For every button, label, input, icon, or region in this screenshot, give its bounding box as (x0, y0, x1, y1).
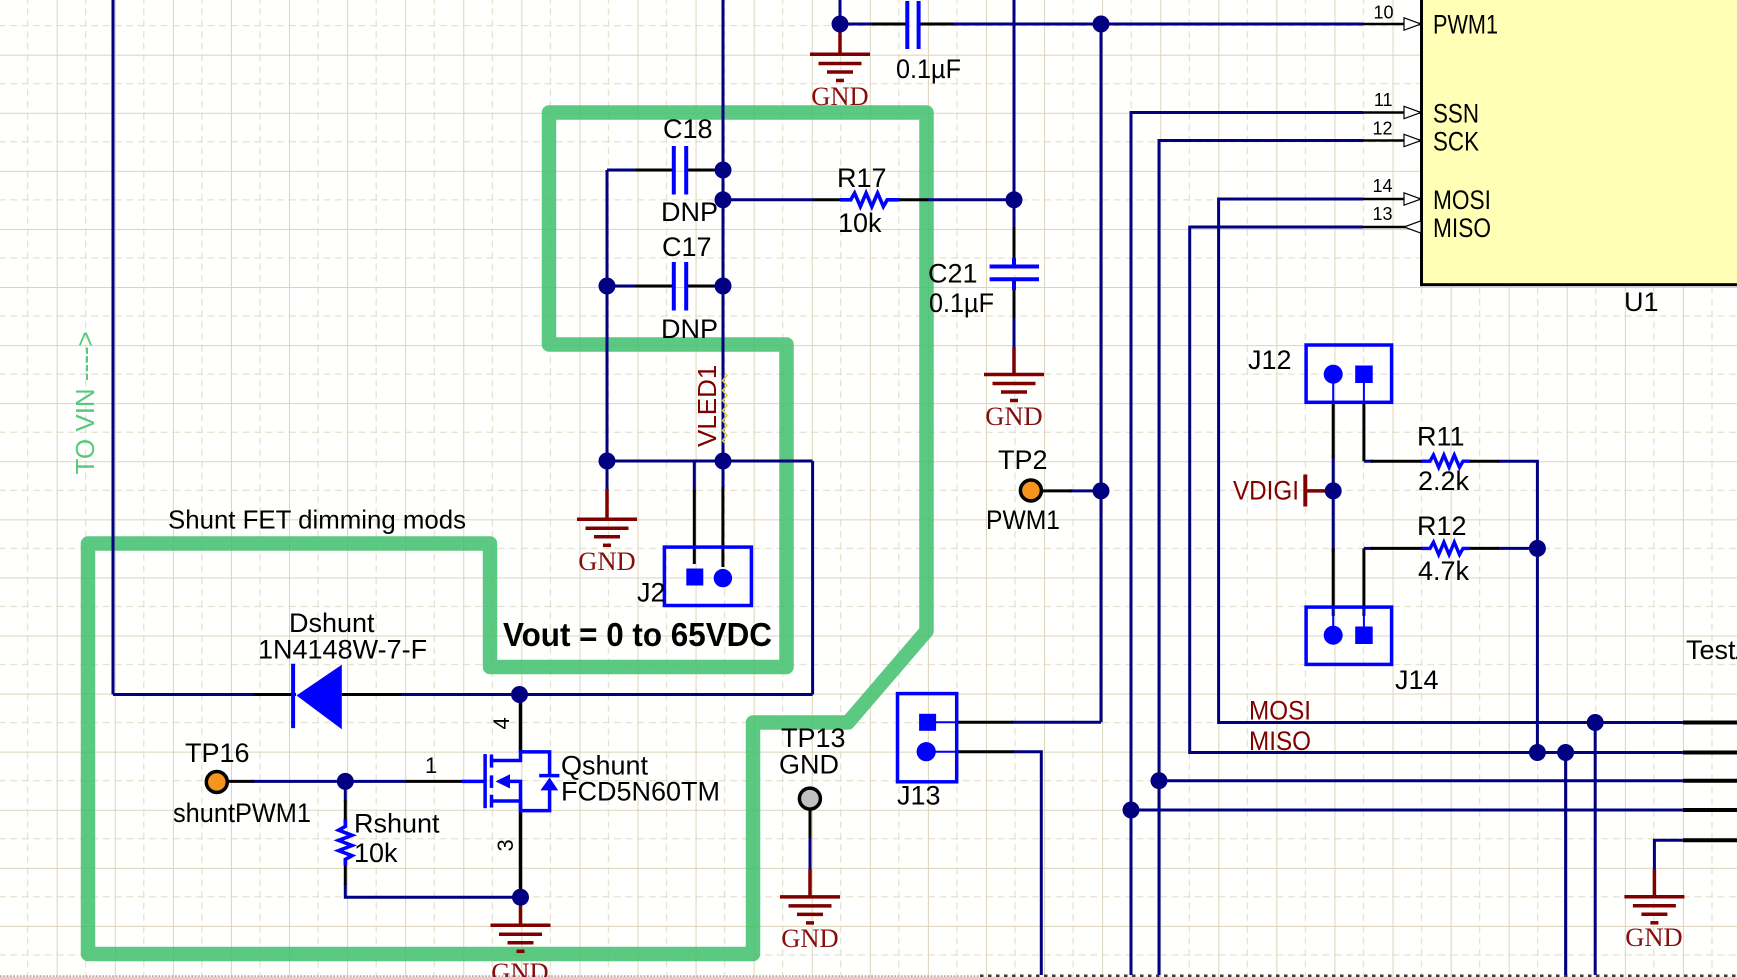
capacitor C20 0.1uF top (872, 1, 961, 84)
svg-text:12: 12 (1372, 119, 1392, 139)
resistor R17 (813, 163, 928, 238)
svg-text:Rshunt: Rshunt (354, 809, 440, 839)
svg-text:4: 4 (489, 717, 514, 729)
wire J2 square pin stub (693, 461, 696, 492)
svg-text:11: 11 (1374, 90, 1393, 110)
svg-text:R12: R12 (1417, 511, 1467, 541)
svg-text:J13: J13 (897, 781, 941, 811)
svg-text:GND: GND (781, 923, 838, 953)
testpoint TP16 shuntPWM1 (173, 738, 311, 828)
svg-text:J14: J14 (1395, 665, 1439, 695)
svg-text:C21: C21 (928, 259, 978, 289)
resistor R12 4.7k (1371, 511, 1499, 586)
ground GND (TP13) (780, 869, 840, 953)
wire C17-C18 left leg (606, 170, 609, 489)
wire VIN vertical left (112, 0, 115, 695)
svg-text:MISO: MISO (1249, 726, 1311, 756)
wire C20 top row (840, 23, 1363, 26)
svg-text:3: 3 (493, 839, 518, 851)
svg-text:10: 10 (1373, 3, 1393, 23)
svg-text:4.7k: 4.7k (1418, 556, 1470, 586)
pin 10 PWM1 (1363, 3, 1498, 40)
svg-text:1: 1 (425, 753, 437, 778)
svg-text:TP2: TP2 (998, 445, 1048, 475)
port TO VIN (70, 331, 100, 474)
capacitor C18 (636, 114, 718, 227)
svg-text:0.1µF: 0.1µF (896, 54, 961, 84)
svg-text:PWM1: PWM1 (986, 505, 1060, 535)
connector J12 (1248, 345, 1392, 461)
wire VLED1 vertical (722, 0, 725, 487)
ground GND (far right) (1624, 869, 1684, 952)
wire SSN net (1131, 113, 1363, 976)
svg-text:GND: GND (985, 401, 1042, 431)
svg-text:GND: GND (811, 81, 868, 111)
svg-text:MOSI: MOSI (1433, 185, 1491, 215)
wire PWM1 net vertical (1100, 24, 1103, 722)
svg-text:TestA: TestA (1686, 635, 1737, 665)
wire SCK net (1159, 141, 1363, 976)
connector J2 (637, 487, 751, 608)
testpoint TP13 GND (779, 723, 846, 869)
ground GND (Qshunt source) (491, 897, 551, 977)
svg-text:shuntPWM1: shuntPWM1 (173, 798, 311, 828)
pin 12 SCK (1363, 119, 1479, 157)
svg-text:10k: 10k (354, 838, 398, 868)
wire VLED1 right riser (811, 461, 814, 695)
wire R12 right stub (1498, 547, 1537, 550)
svg-text:Vout = 0 to 65VDC: Vout = 0 to 65VDC (503, 616, 772, 653)
sheet bottom edge left (0, 975, 979, 977)
resistor R11 2.2k (1371, 422, 1499, 497)
net label VLED1 (692, 365, 727, 447)
resistor Rshunt 10k (339, 800, 440, 885)
wire MISO drop (1564, 753, 1567, 976)
svg-text:C17: C17 (662, 232, 712, 262)
svg-text:0.1µF: 0.1µF (929, 288, 994, 318)
svg-text:2.2k: 2.2k (1418, 466, 1470, 496)
wire C18 row (607, 169, 723, 172)
svg-text:MOSI: MOSI (1249, 696, 1311, 726)
svg-text:DNP: DNP (661, 314, 718, 344)
right edge connector pin stubs (1683, 723, 1737, 841)
svg-text:10k: 10k (838, 208, 882, 238)
wire source gnd stub (519, 888, 522, 897)
wire MISO net (1190, 227, 1683, 753)
pin 13 MISO (1363, 204, 1491, 243)
svg-text:J2: J2 (637, 578, 666, 608)
transistor Qshunt FCD5N60TM (406, 698, 720, 890)
svg-text:C18: C18 (663, 114, 713, 144)
ground GND (J2 area) (577, 489, 637, 576)
svg-text:PWM1: PWM1 (1433, 10, 1498, 40)
wire TP2 to PWM1 (1070, 489, 1101, 492)
svg-text:Shunt FET dimming mods: Shunt FET dimming mods (168, 505, 466, 535)
connector J14 (1306, 548, 1438, 695)
svg-text:DNP: DNP (661, 197, 718, 227)
svg-text:TO VIN ---->: TO VIN ----> (70, 331, 100, 474)
wire right GND stub (1654, 840, 1683, 869)
svg-text:SCK: SCK (1433, 127, 1479, 157)
ground GND (C21) (984, 347, 1044, 431)
wire J12 round pin net / VDIGI (1332, 455, 1335, 552)
wire Rshunt top stub (344, 781, 347, 801)
svg-text:GND: GND (491, 957, 548, 977)
pin 14 MOSI (1363, 176, 1491, 215)
wire J13 pin2 run (1012, 752, 1041, 975)
svg-text:MISO: MISO (1433, 213, 1491, 243)
wire SSN branch row (1131, 809, 1683, 812)
power port VDIGI (1233, 475, 1327, 507)
wire C20 gnd stub (839, 0, 842, 30)
svg-text:SSN: SSN (1433, 99, 1479, 129)
wire R11 left stub (1364, 460, 1373, 463)
svg-text:Dshunt: Dshunt (289, 608, 375, 638)
svg-text:R11: R11 (1417, 422, 1465, 452)
svg-text:FCD5N60TM: FCD5N60TM (561, 777, 720, 807)
svg-text:GND: GND (578, 546, 635, 576)
wire Dshunt row (113, 693, 813, 696)
wire MOSI net (1219, 199, 1683, 723)
wire TP16 to gate (252, 780, 406, 783)
testpoint TP2 PWM1 (986, 445, 1072, 535)
wire R12 left stub (1364, 547, 1373, 550)
wire C17 row (607, 285, 723, 288)
wire MOSI drop (1594, 723, 1597, 976)
svg-text:13: 13 (1372, 204, 1392, 224)
connector J13 (897, 694, 1013, 811)
wire R11-R12 right leg (1498, 461, 1537, 752)
svg-text:U1: U1 (1624, 287, 1659, 317)
capacitor C21 (928, 227, 1039, 318)
green highlight loop (Shunt FET dimming mods annotation) (88, 113, 927, 955)
wire R17 row (723, 198, 1014, 201)
svg-text:J12: J12 (1248, 345, 1292, 375)
capacitor C17 (636, 232, 718, 344)
svg-text:VDIGI: VDIGI (1233, 476, 1299, 506)
svg-text:VLED1: VLED1 (692, 365, 722, 447)
pin 11 SSN (1363, 90, 1479, 129)
IC U1 (1422, 0, 1737, 317)
wire SCK branch row (1159, 779, 1683, 782)
wire Rshunt bottom to source (345, 884, 520, 897)
wire J2 top row (607, 460, 813, 463)
ground GND top (C20) (810, 30, 870, 111)
svg-text:TP16: TP16 (185, 738, 250, 768)
svg-text:14: 14 (1372, 176, 1392, 196)
wire C21 vertical (1013, 0, 1016, 347)
wire J13 pin1 to PWM1 (1012, 721, 1101, 724)
svg-text:R17: R17 (837, 163, 887, 193)
svg-text:1N4148W-7-F: 1N4148W-7-F (258, 635, 427, 665)
svg-text:TP13: TP13 (781, 723, 846, 753)
svg-text:GND: GND (779, 750, 839, 780)
svg-text:GND: GND (1625, 922, 1682, 952)
diode Dshunt 1N4148W-7-F (254, 608, 427, 729)
sheet bottom edge right (980, 975, 1737, 977)
